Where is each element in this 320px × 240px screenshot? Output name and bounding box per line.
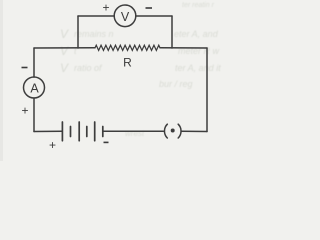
battery B1 plates xyxy=(62,122,102,141)
svg-text:V: V xyxy=(121,10,130,24)
svg-text:+: + xyxy=(21,104,28,118)
wire: right vertical xyxy=(206,48,208,132)
ghost show-through text xyxy=(60,2,221,138)
label - (ammeter top) xyxy=(22,67,28,69)
svg-text:+: + xyxy=(49,138,56,152)
svg-text:eter A, and: eter A, and xyxy=(174,29,219,39)
plug key K1 xyxy=(164,124,167,138)
svg-text:V: V xyxy=(60,61,69,75)
voltmeter V1 circle xyxy=(114,5,136,27)
wire: voltmeter branch left horizontal xyxy=(78,15,114,17)
wire: left vertical lower (ammeter to bottom) xyxy=(33,98,35,132)
resistor R xyxy=(95,45,160,50)
svg-text:ter reatin r: ter reatin r xyxy=(182,2,215,9)
svg-text:V: V xyxy=(60,27,69,41)
wire: top main wire right segment xyxy=(160,47,207,49)
svg-text:A: A xyxy=(30,82,39,96)
wire: left vertical upper (to ammeter) xyxy=(33,48,35,77)
svg-text:bur / reg: bur / reg xyxy=(159,79,193,89)
wire: voltmeter branch right horizontal xyxy=(136,15,172,17)
svg-text:R: R xyxy=(123,56,132,70)
label - (voltmeter right) xyxy=(146,7,153,9)
svg-text:wrest: wrest xyxy=(125,129,145,138)
label - (battery right) xyxy=(104,141,109,143)
svg-text:remains n: remains n xyxy=(74,29,114,39)
svg-text:ter A, and it: ter A, and it xyxy=(175,63,221,73)
svg-text:ratio of: ratio of xyxy=(74,63,103,73)
wire: top main wire left segment xyxy=(34,47,95,49)
paper background xyxy=(0,0,248,161)
svg-text:+: + xyxy=(102,1,109,15)
wire: voltmeter branch right vertical drop xyxy=(171,16,173,48)
svg-text:V: V xyxy=(60,44,69,58)
wire: bottom wire right segment xyxy=(182,130,207,132)
wire: bottom wire left segment xyxy=(34,130,62,132)
wire: voltmeter branch left vertical drop xyxy=(77,16,79,48)
wire: bottom wire battery-to-key segment xyxy=(103,130,164,132)
ammeter A1 circle xyxy=(24,77,45,98)
